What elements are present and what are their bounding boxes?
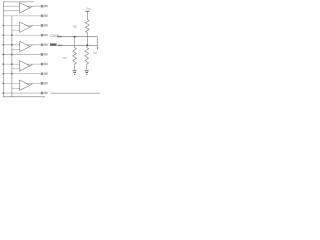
- node dot bus B row7: [11, 63, 13, 65]
- wire input lower U1: [3, 10, 19, 12]
- wire net row6: [3, 53, 41, 55]
- wire net row8: [3, 73, 41, 75]
- wire bus A: [2, 2, 4, 97]
- pin label P8: [41, 72, 48, 75]
- svg-text:75k: 75k: [93, 51, 98, 55]
- node dot bus A row4: [2, 34, 4, 36]
- ground G1: [73, 71, 77, 75]
- pin label P5: [41, 44, 48, 47]
- node dot rail1: [74, 36, 76, 38]
- node dot bus A row8: [2, 73, 4, 75]
- svg-text:75k: 75k: [62, 56, 67, 60]
- power Vcc bar: [85, 10, 89, 12]
- node dot bus B row4: [11, 34, 13, 36]
- svg-text:Vcc: Vcc: [86, 7, 92, 11]
- pin label P4: [41, 34, 48, 37]
- op-amp U3: [20, 41, 33, 51]
- resistor R1: [86, 11, 90, 45]
- resistor R2: [73, 45, 77, 70]
- rule bottom right: [51, 92, 101, 94]
- wire net row2: [3, 15, 41, 17]
- wire net row7: [3, 63, 41, 65]
- node dot bus B row6: [11, 54, 13, 56]
- wire net row1: [3, 5, 41, 7]
- wire net row4: [3, 34, 41, 36]
- node dot rail2: [86, 44, 88, 46]
- resistor R3: [85, 45, 89, 70]
- wire input lower U5: [12, 87, 20, 89]
- pin label P3: [41, 24, 48, 27]
- node dot bus A row7: [2, 63, 4, 65]
- svg-text:CLKB: CLKB: [50, 34, 59, 38]
- op-amp U5: [20, 80, 33, 90]
- pin label P7: [41, 63, 48, 66]
- wire input lower U2: [12, 29, 20, 31]
- arrow continuation: [97, 48, 99, 50]
- node dot bus B row8: [11, 73, 13, 75]
- op-amp U2: [20, 22, 33, 32]
- wire bus B: [11, 16, 13, 97]
- node dot bus A row5: [2, 44, 4, 46]
- wire top border: [3, 1, 34, 3]
- pin label P6: [41, 53, 48, 56]
- pin label P2: [41, 15, 48, 18]
- node dot bus A row9: [2, 83, 4, 85]
- op-amp U4: [20, 61, 33, 71]
- wire rail 2: [62, 44, 97, 46]
- op-amp U1: [20, 3, 33, 13]
- wire bottom border: [3, 96, 45, 98]
- ground G2: [85, 71, 89, 75]
- wire net row5: [3, 44, 41, 46]
- wire net row10: [3, 92, 41, 94]
- pin label P9: [41, 82, 48, 85]
- pin label P10: [41, 92, 48, 95]
- wire rail link: [74, 37, 76, 46]
- wire input lower U3: [12, 49, 20, 51]
- svg-text:75k: 75k: [72, 25, 77, 29]
- node dot bus A row6: [2, 54, 4, 56]
- input label CTLB: [50, 43, 57, 46]
- pin label P1: [41, 5, 48, 8]
- wire net row3: [3, 25, 41, 27]
- wire input lower U4: [12, 68, 20, 70]
- wire CTLB arrow: [57, 44, 62, 46]
- wire right end vertical: [97, 37, 99, 49]
- node dot bus A row10: [2, 92, 4, 94]
- wire rail 1: [62, 36, 97, 38]
- wire CLKB arrow: [57, 36, 62, 38]
- node dot bus B row5: [11, 44, 13, 46]
- node dot bus A row3: [2, 25, 4, 27]
- wire net row9: [3, 82, 41, 84]
